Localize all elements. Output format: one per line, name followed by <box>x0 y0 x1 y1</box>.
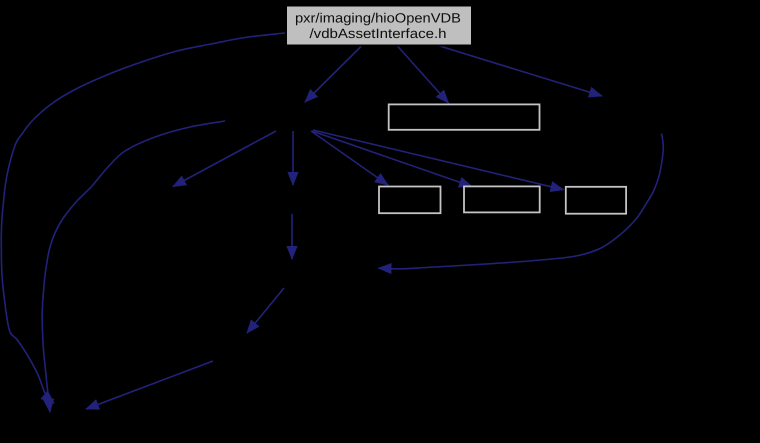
node root pxr/imaging/hioOpenVDB/vdbAssetInterface.h <box>286 6 472 46</box>
svg-text:pxr/imaging/hioOpenVDB: pxr/imaging/hioOpenVDB <box>295 11 461 26</box>
node box A <box>379 187 441 214</box>
edge hidden row2 node to box B <box>312 131 472 187</box>
node box B <box>464 186 540 212</box>
svg-text:/vdbAssetInterface.h: /vdbAssetInterface.h <box>310 26 447 41</box>
edge hidden row2 node to hidden node N2 (vertical) <box>292 131 294 185</box>
edge hidden node N2 to N3 (vertical) <box>291 214 293 259</box>
edge hidden row2 node to hidden bottom-left node (inner left curve) <box>42 121 225 412</box>
edge hidden top-right node to hidden node N3 (right curve) <box>379 134 664 269</box>
edge hidden node N3 to N4 <box>247 288 284 333</box>
edge root to hidden bottom-left node (outer left curve) <box>1 33 285 403</box>
edge root to hidden node pxr/pxr.h (row2) <box>305 46 362 103</box>
node box C <box>566 187 626 214</box>
edge root to wide box node <box>397 46 449 104</box>
edge hidden row2 node to box A <box>311 131 388 185</box>
edge hidden row2 node to box C <box>313 130 564 190</box>
node wide box <box>389 104 540 129</box>
edge root to hidden node top-right <box>438 46 602 97</box>
edge hidden row2 node to hidden left node row3 <box>173 131 276 187</box>
edge hidden node N4 to hidden bottom-left node <box>86 361 213 409</box>
